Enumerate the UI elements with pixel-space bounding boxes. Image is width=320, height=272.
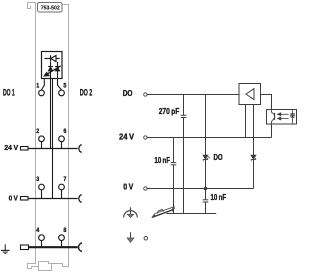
DIN rail symbol (isometric) bbox=[152, 207, 175, 218]
terminal 0V bbox=[144, 187, 147, 190]
light arrows (optocoupler) bbox=[278, 113, 289, 120]
svg-text:270 pF: 270 pF bbox=[159, 107, 180, 116]
label box 753-502 bbox=[38, 3, 63, 13]
power jumper blade contact earth (left) bbox=[21, 245, 29, 250]
wire: internal bus to 0V rail bbox=[52, 79, 54, 199]
svg-text:1: 1 bbox=[36, 82, 39, 89]
wire: 24V line bbox=[147, 137, 271, 139]
wire: optocoupler emitter to 24V line bbox=[271, 124, 273, 138]
power jumper contact symbol (down arrow) bbox=[127, 232, 134, 242]
terminal pin 2 bbox=[39, 136, 45, 142]
wire: driver supply lead to 24V bbox=[245, 105, 247, 138]
svg-text:DO 2: DO 2 bbox=[80, 86, 93, 97]
LED box U1 bbox=[42, 52, 63, 79]
wire: internal bus to 24V rail bbox=[50, 79, 52, 149]
power jumper contact symbol (dome with arrow) bbox=[124, 207, 138, 217]
wire: pin 7 stem bbox=[61, 190, 63, 199]
svg-text:3: 3 bbox=[36, 176, 39, 183]
terminal pin 5 bbox=[59, 90, 65, 96]
earth symbol (left) bbox=[1, 244, 10, 253]
wire: DO line bbox=[147, 94, 238, 96]
wire: 0V rail bbox=[28, 198, 78, 200]
wire: pin 3 stem bbox=[41, 190, 43, 199]
svg-text:24 V: 24 V bbox=[4, 143, 19, 152]
terminal 24V bbox=[144, 136, 147, 139]
LED D2 (optocoupler input) bbox=[291, 110, 295, 125]
capacitor C2 10 nF with wire from 24V line to chassis rail bbox=[171, 138, 177, 214]
module body outline (left gray housing) bbox=[28, 3, 69, 271]
wire: chassis rail (bottom) bbox=[167, 213, 217, 215]
capacitor C3 10 nF with wire from 0V node to chassis rail bbox=[203, 189, 209, 214]
optocoupler U3 bbox=[267, 110, 297, 125]
svg-text:5: 5 bbox=[63, 82, 66, 89]
suppressor diode VD1 (DO) with wire from DO line to 0V line bbox=[203, 95, 210, 189]
svg-text:0 V: 0 V bbox=[9, 193, 19, 202]
diode D1 (horizontal, cathode bar left) bbox=[44, 55, 59, 61]
LED L1 (vertical diode, cathode bar) bbox=[48, 62, 53, 79]
svg-text:8: 8 bbox=[63, 227, 66, 234]
svg-text:DO: DO bbox=[214, 153, 223, 162]
terminal (unconnected, row 4 right) bbox=[144, 237, 148, 241]
junction node 0V/zener bbox=[204, 187, 208, 191]
svg-text:10 nF: 10 nF bbox=[154, 156, 170, 165]
LED emission arrow bbox=[44, 66, 61, 76]
terminal pin 7 bbox=[59, 184, 65, 190]
power jumper socket contact earth (right arc) bbox=[79, 243, 82, 252]
terminal pin 1 bbox=[39, 90, 45, 96]
wire: pin 8 stem bbox=[61, 241, 63, 247]
wire: earth rail (thick) bbox=[29, 246, 78, 248]
power jumper blade contact 0V (left) bbox=[21, 197, 29, 201]
svg-text:DO: DO bbox=[123, 89, 133, 98]
terminal DO bbox=[144, 93, 147, 96]
svg-text:2: 2 bbox=[36, 128, 39, 135]
wire: 24V rail bbox=[28, 148, 78, 150]
wire: pin 6 stem bbox=[61, 142, 63, 149]
power jumper socket contact 0V (right arc) bbox=[79, 195, 82, 203]
terminal pin 3 bbox=[39, 184, 45, 190]
phototransistor Q1 bbox=[272, 110, 275, 125]
LED L2 (vertical diode, cathode bar) bbox=[55, 62, 60, 79]
svg-text:6: 6 bbox=[63, 128, 66, 135]
svg-text:753-502: 753-502 bbox=[41, 5, 61, 11]
svg-text:7: 7 bbox=[63, 176, 66, 183]
terminal pin 8 bbox=[59, 235, 65, 241]
wire: driver output to optocoupler bbox=[261, 95, 272, 110]
wire: pin 2 stem bbox=[41, 142, 43, 149]
power jumper blade contact 24V (left) bbox=[21, 147, 29, 151]
svg-text:0 V: 0 V bbox=[123, 183, 134, 192]
wire: lead box to pin 5 bbox=[58, 79, 62, 90]
wire: 0V line bbox=[147, 188, 253, 190]
svg-text:4: 4 bbox=[36, 227, 39, 234]
terminal pin 4 bbox=[39, 235, 45, 241]
svg-text:24 V: 24 V bbox=[119, 133, 135, 142]
svg-text:DO 1: DO 1 bbox=[3, 86, 15, 97]
capacitor C1 270 pF with wire from DO line to chassis rail bbox=[181, 95, 187, 214]
suppressor diode VD2 with wire from driver to 0V extension bbox=[251, 105, 256, 189]
svg-text:10 nF: 10 nF bbox=[211, 193, 227, 202]
wire: lead box to pin 1 bbox=[42, 79, 45, 90]
op-amp / driver U2 bbox=[239, 84, 261, 105]
terminal pin 6 bbox=[59, 136, 65, 142]
power jumper socket contact 24V (right arc) bbox=[79, 145, 82, 153]
wire: pin 4 stem bbox=[41, 241, 43, 247]
